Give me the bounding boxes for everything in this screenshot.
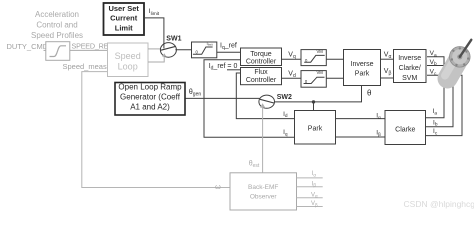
wire Ialpha (Clarke to Park) [336, 118, 386, 120]
svg-text:Vα: Vα [311, 192, 318, 198]
wire observer input Vbeta [297, 206, 323, 208]
svg-text:Clarke: Clarke [395, 126, 415, 133]
wire Valpha [381, 58, 394, 60]
svg-text:A1 and A2): A1 and A2) [130, 103, 170, 112]
block: Torque Controller [241, 48, 282, 66]
wire Iq_ref [217, 51, 241, 53]
svg-text:Acceleration: Acceleration [35, 10, 79, 19]
switch SW2 [259, 95, 275, 108]
wire SW1 output [175, 49, 191, 51]
wire Vb / Ib [426, 66, 454, 127]
speed loop block [108, 43, 149, 77]
wire observer input Ialpha [297, 177, 323, 179]
block: Flux Controller [241, 68, 282, 85]
svg-text:Controller: Controller [246, 59, 277, 66]
svg-text:limit: limit [208, 43, 213, 47]
svg-text:Controller: Controller [246, 77, 277, 84]
wire Vbeta [381, 77, 394, 79]
block: Park [295, 111, 336, 145]
wire speed loop output to SW1 [148, 48, 162, 50]
svg-text:Park: Park [308, 125, 323, 132]
wire Id feedback (Park to Flux Controller) [236, 73, 294, 119]
svg-text:Generator (Coeff: Generator (Coeff [120, 93, 181, 102]
wire Iq feedback (Park to Torque Controller) [204, 60, 295, 138]
svg-text:Inverse: Inverse [398, 55, 421, 62]
wire theta_est (gray, Back-EMF to SW2) [260, 103, 265, 173]
wire Vd [282, 77, 302, 79]
svg-text:Speed_meas: Speed_meas [63, 62, 107, 71]
block: User Set Current Limit [104, 3, 145, 35]
wire Vc / Ic [426, 75, 463, 135]
svg-text:SW2: SW2 [277, 94, 292, 101]
svg-text:DUTY_CMD: DUTY_CMD [7, 42, 49, 51]
block: Inverse Park [344, 50, 381, 86]
svg-text:Current: Current [110, 14, 138, 23]
svg-text:Control and: Control and [36, 21, 77, 30]
wire observer input Ibeta [297, 186, 323, 188]
svg-text:Clarke/: Clarke/ [399, 65, 421, 72]
wire VM1 to Inverse Park [326, 58, 343, 60]
svg-text:Inverse: Inverse [351, 61, 374, 68]
saturation block: VM limiter 2 [301, 70, 326, 87]
wire Id_ref [227, 69, 241, 71]
wire observer input Valpha [297, 197, 323, 199]
block: Open Loop Ramp Generator [115, 83, 185, 116]
switch SW1 [160, 43, 176, 58]
block: Inverse Clarke / SVM [394, 50, 427, 83]
svg-text:Limit: Limit [115, 23, 133, 32]
saturation block: VM limiter 1 [301, 49, 326, 66]
wire speed loop lower contact to SW1 [148, 55, 164, 62]
svg-text:θ: θ [367, 89, 372, 98]
block: Clarke [385, 111, 426, 145]
wire theta (SW2 to Inverse Park) [274, 86, 361, 102]
svg-text:Torque: Torque [250, 51, 272, 58]
svg-text:Open Loop Ramp: Open Loop Ramp [118, 83, 182, 92]
wire Ibeta (Clarke to Park) [336, 136, 386, 138]
svg-text:User Set: User Set [108, 4, 139, 13]
wire DUTY_CMD stub [44, 49, 46, 51]
wire Vq [282, 58, 302, 60]
svg-text:SPEED_REF: SPEED_REF [72, 42, 114, 51]
svg-text:SW1: SW1 [166, 35, 181, 42]
svg-text:Iβ: Iβ [312, 181, 317, 187]
wire theta to Park [313, 102, 315, 111]
wire Ilimit to SW1 [144, 18, 164, 46]
svg-text:Back-EMF: Back-EMF [248, 184, 278, 191]
wire theta_gen to SW2 [185, 97, 260, 99]
svg-text:SVM: SVM [402, 75, 417, 82]
svg-text:VM: VM [317, 49, 324, 54]
junction node theta [312, 100, 315, 103]
svg-text:Speed Profiles: Speed Profiles [31, 31, 83, 40]
svg-text:Vβ: Vβ [311, 201, 318, 207]
block: Back-EMF Observer [230, 173, 297, 210]
svg-text:CSDN @hlpinghcg: CSDN @hlpinghcg [404, 199, 474, 209]
svg-text:Speed: Speed [115, 51, 141, 61]
wire SPEED_REF [70, 49, 108, 51]
svg-text:Park: Park [355, 70, 370, 77]
label: Acceleration Control and Speed Profiles [31, 10, 83, 40]
wire Va / Ia [426, 57, 445, 118]
motor [445, 40, 471, 79]
svg-text:VM: VM [317, 70, 324, 75]
svg-text:Loop: Loop [118, 62, 138, 72]
svg-text:Observer: Observer [250, 193, 278, 200]
wire speed_meas / omega feedback [82, 72, 230, 188]
svg-text:Flux: Flux [254, 69, 268, 76]
speed profile ramp block [46, 42, 70, 61]
svg-text:ω: ω [215, 182, 221, 191]
svg-text:Iα: Iα [312, 171, 317, 177]
wire VM2 to Inverse Park [326, 77, 343, 79]
saturation block: current limiter [192, 42, 217, 58]
